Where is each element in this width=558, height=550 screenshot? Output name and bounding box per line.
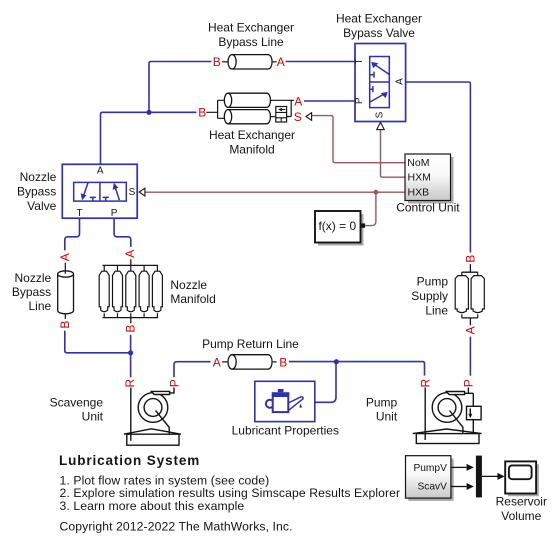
svg-text:HXB: HXB xyxy=(408,186,430,198)
svg-text:Nozzle: Nozzle xyxy=(20,170,57,184)
svg-text:T: T xyxy=(76,208,82,219)
svg-text:P: P xyxy=(167,379,181,387)
svg-text:Heat Exchanger: Heat Exchanger xyxy=(209,128,295,142)
svg-text:S: S xyxy=(129,187,136,198)
svg-text:A: A xyxy=(394,78,405,85)
svg-text:Heat Exchanger: Heat Exchanger xyxy=(336,11,422,25)
svg-text:P: P xyxy=(354,97,365,104)
svg-text:Reservoir: Reservoir xyxy=(496,495,547,509)
svg-text:B: B xyxy=(124,325,138,333)
svg-text:A: A xyxy=(464,326,478,334)
svg-text:B: B xyxy=(213,55,221,69)
svg-text:P: P xyxy=(462,379,476,387)
svg-text:B: B xyxy=(58,321,72,329)
svg-text:S: S xyxy=(294,110,302,124)
svg-text:Nozzle: Nozzle xyxy=(170,278,207,292)
svg-text:R: R xyxy=(419,379,433,388)
svg-text:B: B xyxy=(464,255,478,263)
svg-text:Pump: Pump xyxy=(417,275,449,289)
svg-text:Control Unit: Control Unit xyxy=(396,201,460,215)
svg-text:S: S xyxy=(375,111,386,118)
svg-text:Nozzle: Nozzle xyxy=(15,271,52,285)
svg-text:Heat Exchanger: Heat Exchanger xyxy=(208,21,294,35)
svg-text:Unit: Unit xyxy=(376,409,398,423)
svg-text:Copyright 2012-2022 The MathWo: Copyright 2012-2022 The MathWorks, Inc. xyxy=(60,520,293,534)
svg-text:T: T xyxy=(354,59,365,65)
svg-text:ScavV: ScavV xyxy=(417,481,447,492)
svg-text:Supply: Supply xyxy=(411,289,448,303)
svg-text:Lubrication System: Lubrication System xyxy=(59,453,200,468)
svg-text:NoM: NoM xyxy=(407,157,429,169)
svg-text:A: A xyxy=(277,55,285,69)
svg-text:A: A xyxy=(123,250,137,258)
svg-text:PumpV: PumpV xyxy=(413,463,447,474)
svg-text:Pump: Pump xyxy=(366,395,398,409)
svg-text:Bypass Line: Bypass Line xyxy=(218,35,284,49)
svg-text:Scavenge: Scavenge xyxy=(50,395,104,409)
svg-text:B: B xyxy=(279,355,287,369)
svg-text:A: A xyxy=(58,253,72,261)
svg-text:Manifold: Manifold xyxy=(229,143,274,157)
svg-text:Valve: Valve xyxy=(27,199,56,213)
svg-text:Bypass: Bypass xyxy=(12,285,51,299)
svg-text:B: B xyxy=(198,106,206,120)
svg-text:A: A xyxy=(294,95,302,109)
svg-text:Line: Line xyxy=(425,303,448,317)
svg-text:Bypass Valve: Bypass Valve xyxy=(343,26,415,40)
svg-text:Bypass: Bypass xyxy=(17,185,56,199)
svg-text:Line: Line xyxy=(29,299,52,313)
svg-text:A: A xyxy=(213,355,221,369)
svg-text:f(x) = 0: f(x) = 0 xyxy=(318,219,356,233)
svg-text:HXM: HXM xyxy=(408,171,431,183)
svg-text:Lubricant Properties: Lubricant Properties xyxy=(232,424,339,438)
svg-text:3. Learn more about this examp: 3. Learn more about this example xyxy=(60,499,245,513)
svg-text:R: R xyxy=(123,379,137,388)
svg-text:A: A xyxy=(97,165,104,176)
svg-text:P: P xyxy=(111,208,118,219)
svg-text:Unit: Unit xyxy=(82,409,104,423)
svg-text:Manifold: Manifold xyxy=(170,292,215,306)
svg-text:Volume: Volume xyxy=(501,509,541,523)
svg-text:Pump Return Line: Pump Return Line xyxy=(202,337,299,351)
